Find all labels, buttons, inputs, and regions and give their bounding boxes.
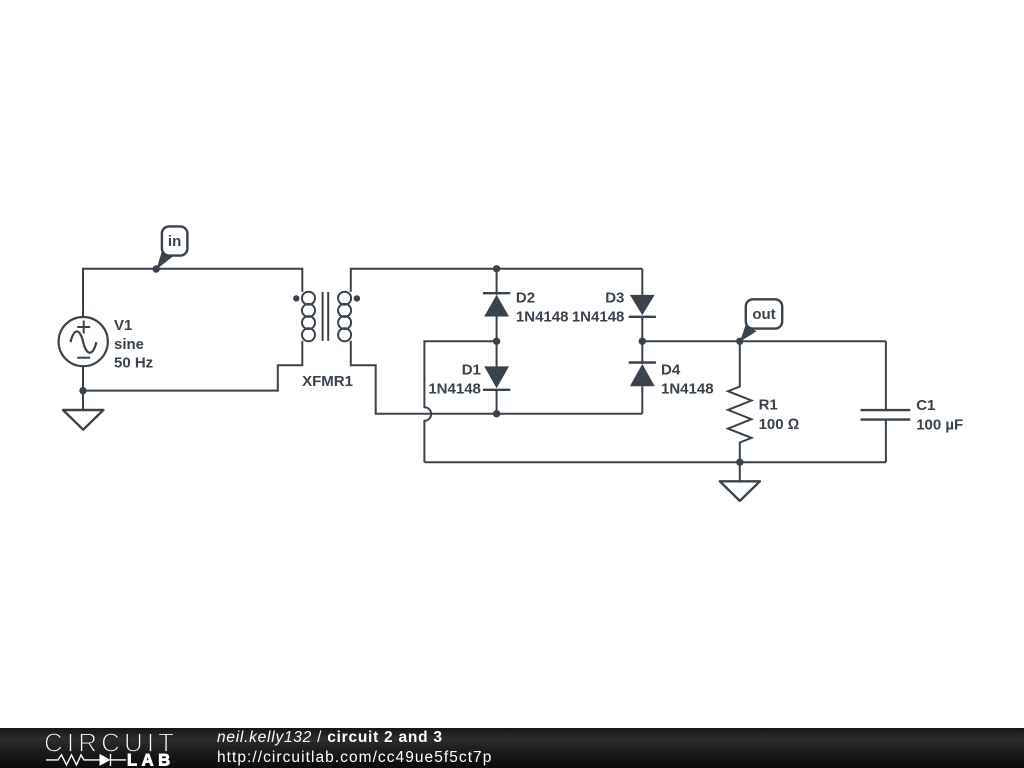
svg-text:50 Hz: 50 Hz — [114, 355, 153, 372]
wire: XFMR1 secondary bottom to node B rail (crosses under hop) — [351, 341, 643, 414]
svg-text:100 Ω: 100 Ω — [759, 416, 800, 433]
wire: R1 bottom to ground — [739, 462, 741, 481]
wire: bottom rail to C1 bottom — [424, 461, 886, 463]
svg-text:D4: D4 — [661, 362, 681, 379]
wire: V1 bottom lead down to ground — [82, 366, 84, 410]
wire: XFMR1 secondary top to bridge top rail — [351, 269, 643, 292]
svg-text:1N4148: 1N4148 — [661, 380, 714, 397]
wire: V1 top lead and top rail to XFMR1 primary — [83, 269, 302, 318]
logo resistor-diode squiggle — [46, 754, 126, 766]
svg-text:D2: D2 — [516, 290, 535, 307]
svg-text:V1: V1 — [114, 317, 132, 334]
voltage source V1 — [59, 317, 108, 366]
capacitor C1 — [861, 341, 911, 462]
junction dot: D3 cathode on out rail — [639, 338, 646, 345]
wire: V1 bottom node to XFMR1 primary bottom — [83, 341, 302, 391]
svg-text:D1: D1 — [462, 362, 481, 379]
label C1 — [916, 397, 963, 433]
svg-text:R1: R1 — [759, 397, 778, 414]
node flag in — [156, 226, 187, 269]
diode D1 — [483, 341, 510, 414]
junction dot: node B at D1 bottom — [493, 410, 500, 417]
ground (V1) — [63, 410, 103, 430]
label D2 — [516, 290, 569, 326]
junction dot: top rail at D2 — [493, 265, 500, 272]
wire: bridge mid-left from D2/D1 node down (hop over node B rail) to bottom rail — [424, 341, 496, 462]
label D4 — [661, 362, 714, 398]
diode D3 — [629, 269, 656, 342]
node flag out — [740, 299, 782, 341]
svg-text:XFMR1: XFMR1 — [302, 373, 353, 390]
svg-text:100 µF: 100 µF — [916, 416, 963, 433]
label R1 — [759, 397, 800, 433]
svg-text:1N4148: 1N4148 — [516, 309, 569, 326]
svg-text:C1: C1 — [916, 397, 935, 414]
junction dot: D2 anode / D1 top — [493, 338, 500, 345]
footer title line — [217, 729, 443, 747]
V1 value labels — [114, 317, 153, 372]
diode D4 — [629, 341, 656, 414]
CircuitLab logo — [0, 728, 210, 768]
svg-text:out: out — [752, 306, 775, 323]
junction dot: out node — [736, 338, 743, 345]
footer bar — [0, 728, 1024, 768]
resistor R1 — [728, 341, 752, 462]
label D1 — [428, 362, 481, 398]
junction dot: R1 bottom on bottom rail — [736, 459, 743, 466]
svg-text:LAB: LAB — [127, 752, 175, 768]
diode D2 — [483, 269, 510, 342]
label D3 — [572, 290, 625, 326]
transformer XFMR1 — [293, 292, 360, 342]
wire: out rail from D3/D4 node to C1 top — [642, 340, 886, 342]
svg-text:in: in — [168, 233, 181, 250]
ground (output) — [720, 481, 760, 501]
junction dot: node in on top rail — [153, 265, 160, 272]
svg-text:D3: D3 — [605, 290, 624, 307]
junction dot: V1 ground node — [79, 387, 86, 394]
svg-text:sine: sine — [114, 336, 144, 353]
svg-text:1N4148: 1N4148 — [428, 380, 481, 397]
footer url line — [217, 749, 492, 767]
svg-text:1N4148: 1N4148 — [572, 309, 625, 326]
